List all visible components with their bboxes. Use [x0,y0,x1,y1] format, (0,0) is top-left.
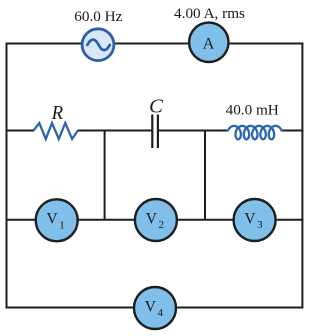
svg-text:V: V [145,299,157,316]
wire row2: resistor to capacitor [78,130,153,132]
capacitor C (right plate) [157,115,159,149]
svg-text:40.0 mH: 40.0 mH [226,102,279,119]
svg-text:A: A [203,36,215,53]
wire row2: capacitor to inductor [158,130,229,132]
capacitor C (left plate) [151,115,153,149]
voltmeter V4 [134,287,176,329]
inductor L (coil, 40.0 mH) [228,126,282,139]
svg-text:3: 3 [257,219,263,231]
wire row2: inductor to right side [281,130,303,132]
svg-text:4: 4 [158,307,164,319]
wire junction drop right (node between C and L) [204,131,206,221]
voltmeter V1 [36,199,78,241]
svg-text:C: C [149,96,163,118]
wire junction drop left (node between R and C) [104,131,106,221]
voltmeter V3 [234,199,276,241]
wire row3 (voltmeter bus) [6,219,304,221]
svg-text:V: V [244,211,256,228]
svg-text:4.00 A, rms: 4.00 A, rms [174,5,245,22]
ac source (60.0 Hz) [82,29,114,61]
wire row2: left lead to resistor [6,130,34,132]
svg-text:V: V [146,211,158,228]
svg-text:V: V [46,211,58,228]
resistor R (zigzag) [34,123,78,139]
svg-text:60.0 Hz: 60.0 Hz [74,8,122,25]
svg-text:R: R [51,102,63,124]
voltmeter V2 [135,199,177,241]
wire bottom side [6,307,304,309]
svg-text:1: 1 [59,219,65,231]
wire left side [6,43,8,309]
wire top side [6,43,304,45]
wire right side [301,43,303,309]
ammeter A [189,23,228,62]
svg-text:2: 2 [158,219,164,231]
